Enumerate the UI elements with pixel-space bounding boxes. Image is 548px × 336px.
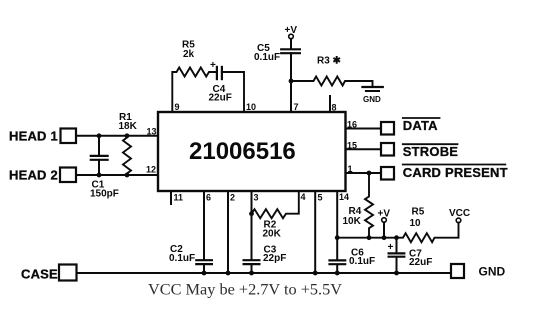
svg-text:3: 3 bbox=[254, 193, 259, 203]
svg-text:CASE: CASE bbox=[21, 267, 58, 282]
svg-text:10: 10 bbox=[246, 102, 256, 112]
svg-text:+V: +V bbox=[285, 25, 298, 36]
svg-text:HEAD 1: HEAD 1 bbox=[9, 128, 58, 143]
svg-text:R5: R5 bbox=[412, 207, 425, 218]
svg-text:18K: 18K bbox=[119, 121, 138, 132]
svg-text:22pF: 22pF bbox=[263, 253, 286, 264]
svg-text:VCC: VCC bbox=[449, 208, 470, 219]
svg-text:16: 16 bbox=[347, 119, 357, 129]
svg-text:22uF: 22uF bbox=[409, 257, 432, 268]
svg-text:12: 12 bbox=[146, 165, 156, 175]
svg-text:8: 8 bbox=[332, 103, 337, 113]
svg-text:STROBE: STROBE bbox=[403, 144, 459, 159]
svg-text:GND: GND bbox=[363, 95, 381, 104]
svg-text:150pF: 150pF bbox=[90, 189, 119, 200]
svg-text:+: + bbox=[388, 242, 394, 253]
svg-text:0.1uF: 0.1uF bbox=[349, 256, 375, 267]
svg-text:+: + bbox=[210, 60, 216, 71]
svg-text:2: 2 bbox=[230, 193, 235, 203]
svg-text:CARD PRESENT: CARD PRESENT bbox=[403, 165, 508, 180]
svg-text:21006516: 21006516 bbox=[189, 138, 296, 165]
svg-text:R3 ✱: R3 ✱ bbox=[317, 56, 342, 67]
svg-text:HEAD 2: HEAD 2 bbox=[9, 168, 58, 183]
svg-text:5: 5 bbox=[318, 193, 323, 203]
svg-text:13: 13 bbox=[147, 127, 157, 137]
svg-text:4: 4 bbox=[301, 192, 306, 202]
svg-text:DATA: DATA bbox=[403, 118, 438, 133]
svg-text:9: 9 bbox=[175, 102, 180, 112]
svg-text:0.1uF: 0.1uF bbox=[254, 52, 280, 63]
svg-text:0.1uF: 0.1uF bbox=[169, 253, 195, 264]
svg-text:6: 6 bbox=[206, 193, 211, 203]
svg-text:1: 1 bbox=[348, 164, 353, 174]
svg-text:+V: +V bbox=[378, 209, 391, 220]
svg-text:20K: 20K bbox=[263, 229, 282, 240]
svg-text:10K: 10K bbox=[343, 216, 362, 227]
svg-text:GND: GND bbox=[479, 265, 506, 279]
svg-text:15: 15 bbox=[347, 140, 357, 150]
svg-text:7: 7 bbox=[294, 102, 299, 112]
svg-text:10: 10 bbox=[410, 218, 422, 229]
svg-text:VCC May be +2.7V to +5.5V: VCC May be +2.7V to +5.5V bbox=[148, 279, 342, 298]
svg-text:14: 14 bbox=[339, 192, 349, 202]
svg-text:11: 11 bbox=[174, 193, 184, 203]
svg-text:22uF: 22uF bbox=[209, 93, 232, 104]
svg-text:2k: 2k bbox=[183, 49, 195, 60]
